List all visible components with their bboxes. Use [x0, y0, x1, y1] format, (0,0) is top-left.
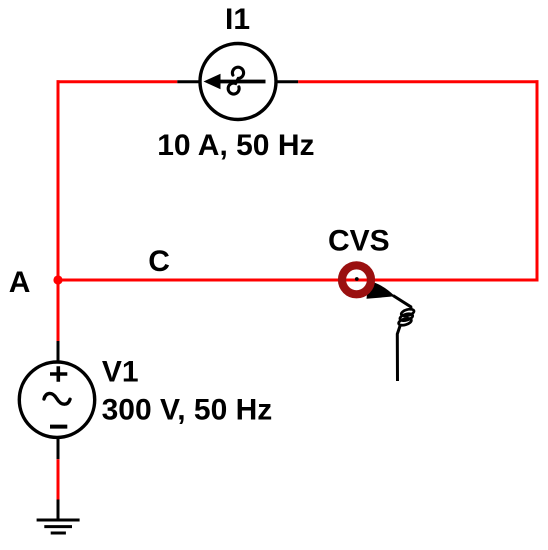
wire: black stub right of I1	[275, 80, 298, 83]
voltage source V1 circle	[19, 362, 94, 437]
V1 plus sign	[50, 366, 67, 382]
wire: black stub below V1	[57, 437, 60, 459]
wire: middle horizontal red (node A to right corner)	[57, 279, 539, 282]
V1 minus sign	[50, 425, 67, 429]
node A junction dot	[53, 275, 62, 284]
CVS center dot	[355, 277, 359, 281]
I1 arrow shaft	[208, 80, 266, 84]
svg-text:300 V, 50 Hz: 300 V, 50 Hz	[102, 394, 273, 427]
wire: top horizontal left red segment	[57, 80, 178, 83]
ground symbol	[37, 520, 80, 533]
wire: black stub above V1	[57, 341, 60, 363]
wire: black stub left of I1	[177, 80, 201, 83]
svg-text:CVS: CVS	[328, 224, 390, 257]
wire: top horizontal right red segment	[298, 80, 538, 83]
svg-text:I1: I1	[225, 3, 250, 36]
CVS probe lead lower	[397, 325, 400, 382]
wire: left vertical red (corner to below node A)	[57, 80, 60, 341]
svg-text:10 A, 50 Hz: 10 A, 50 Hz	[157, 129, 314, 162]
V1 sine symbol	[44, 393, 70, 404]
I1 arrowhead	[204, 74, 221, 89]
current source I1 circle	[200, 44, 276, 120]
I1 sine squiggle	[228, 67, 243, 94]
wire: black segment to ground	[57, 500, 60, 521]
CVS probe wedge	[367, 281, 396, 299]
svg-text:A: A	[9, 266, 31, 299]
wire: right vertical red	[536, 80, 539, 281]
CVS current probe ring	[342, 265, 371, 294]
wire: red segment below V1	[57, 459, 60, 499]
CVS probe coil	[398, 308, 415, 327]
svg-text:V1: V1	[102, 355, 139, 388]
svg-text:C: C	[148, 245, 170, 278]
CVS probe lead upper	[393, 296, 411, 311]
